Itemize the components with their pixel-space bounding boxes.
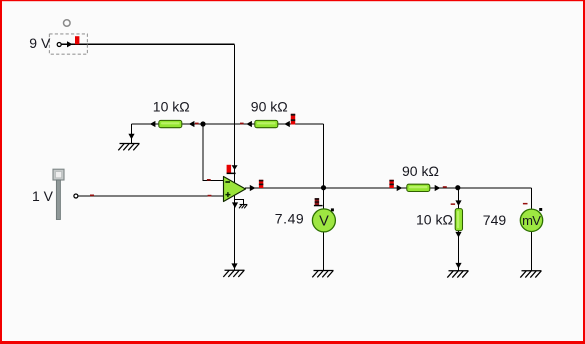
ground G5 millivoltmeter xyxy=(520,271,541,278)
current arrow down below op-amp xyxy=(232,202,238,208)
wire junction to inverting input xyxy=(203,124,224,181)
wire millivoltmeter column xyxy=(531,188,533,271)
current arrow left after R2 xyxy=(284,121,290,127)
wire op-amp V- small earth branch xyxy=(235,200,243,205)
ground G1 left xyxy=(118,144,139,151)
op-amp U1 xyxy=(224,177,246,202)
wire 10k load column xyxy=(458,188,460,271)
millivoltmeter M2 polarity dot xyxy=(539,208,542,211)
potentiometer track of 1V source xyxy=(56,180,60,220)
wire 1V source to non-inverting input xyxy=(78,195,224,197)
voltage bar right of feedback R2 (7.49V) xyxy=(291,114,295,125)
ground G2 op-amp xyxy=(223,270,244,277)
svg-text:90 kΩ: 90 kΩ xyxy=(251,99,288,115)
voltage tick at millivoltmeter top (749mV) xyxy=(523,203,528,205)
svg-text:10 kΩ: 10 kΩ xyxy=(416,211,453,227)
battery V1 selection box xyxy=(49,34,87,54)
voltage bar at battery (9V) xyxy=(75,36,79,44)
svg-text:7.49: 7.49 xyxy=(275,210,304,226)
current arrow right before R3 xyxy=(397,185,403,191)
voltage tick above R4 (749mV) xyxy=(451,203,455,205)
ground G3 voltmeter xyxy=(312,271,333,278)
junction node J1 xyxy=(200,121,205,126)
voltage bar before R3 (7.49V) xyxy=(389,180,393,188)
junction node J2 output xyxy=(321,185,326,190)
current arrow down below R4 xyxy=(455,232,461,238)
battery V1 terminal circle xyxy=(57,43,61,47)
svg-text:749: 749 xyxy=(483,212,507,228)
potentiometer knob of 1V source xyxy=(53,169,64,180)
wire feedback right column xyxy=(323,124,325,188)
voltage bar at voltmeter top (7.49V) xyxy=(314,198,323,206)
current arrow down on left ground drop xyxy=(128,134,134,140)
svg-text:9 V: 9 V xyxy=(29,35,51,51)
voltmeter M1 xyxy=(312,209,335,232)
voltage tick right of crossing on row (0V) xyxy=(240,123,244,125)
current arrow left before R2 xyxy=(246,121,252,127)
svg-text:1 V: 1 V xyxy=(32,188,54,204)
resistor R2 90k feedback horizontal xyxy=(255,120,278,127)
current arrow left after R1 xyxy=(189,121,195,127)
svg-text:90 kΩ: 90 kΩ xyxy=(402,163,439,179)
current arrow right at battery xyxy=(67,41,73,47)
wire output row xyxy=(245,187,532,189)
voltage bar at op-amp output (7.49V) xyxy=(259,180,263,188)
wire voltmeter column xyxy=(323,188,325,271)
current arrow down above R4 xyxy=(455,200,461,206)
svg-text:10 kΩ: 10 kΩ xyxy=(153,99,190,115)
wire left ground drop xyxy=(131,124,133,144)
wire battery column down to op-amp V+ and V- to ground xyxy=(234,44,236,270)
svg-text:mV: mV xyxy=(522,213,541,228)
battery V1 free terminal xyxy=(64,20,71,27)
current arrow down above R4 ground xyxy=(455,263,461,269)
current arrow down into op-amp V+ xyxy=(232,165,238,170)
voltage tick right of R3 (749mV) xyxy=(443,186,447,188)
wire battery output top run xyxy=(61,43,235,45)
current arrow right after R3 xyxy=(435,185,441,191)
voltage tick left of junction J1 (0V) xyxy=(195,123,199,125)
ground E1 op-amp small earth xyxy=(239,205,247,209)
voltage tick on inverting input wire (0V) xyxy=(207,179,211,181)
resistor R3 90k horizontal xyxy=(407,184,430,191)
ground G4 divider xyxy=(447,271,468,278)
wire inverting-node row y=124 xyxy=(132,123,324,125)
1V source terminal circle xyxy=(74,194,78,198)
junction node J3 divider xyxy=(455,185,460,190)
current arrow right at op-amp output xyxy=(250,185,256,191)
voltmeter M1 polarity dot xyxy=(331,208,334,211)
resistor R1 10k horizontal xyxy=(159,120,182,127)
voltage bar at op-amp V+ node (9V) xyxy=(227,165,236,174)
svg-text:V: V xyxy=(319,214,329,230)
voltage tick on non-inverting input wire (1V) xyxy=(208,195,212,197)
current arrow down above op-amp ground xyxy=(231,263,237,269)
resistor R4 10k vertical xyxy=(455,209,462,231)
current arrow left before R1 xyxy=(150,121,156,127)
millivoltmeter M2 xyxy=(520,209,542,231)
voltage tick on 1V source wire xyxy=(90,195,94,197)
